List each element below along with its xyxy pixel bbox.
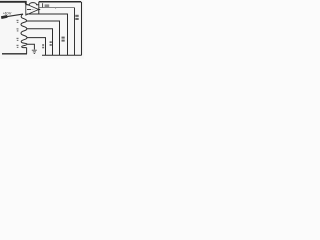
op-amp inner gray text xyxy=(32,9,35,11)
wire chain bottom drop xyxy=(26,48,28,54)
wire tap 3 to x51 vertical xyxy=(27,29,53,56)
label VREF xyxy=(42,3,44,7)
op-amp U1 xyxy=(26,4,39,15)
label left of x67 vertical xyxy=(62,37,65,42)
resistor Rf feedback arch xyxy=(26,3,39,5)
wire diagonal from +10V to ladder top xyxy=(7,14,23,17)
wire bottom rail right xyxy=(42,54,82,56)
wire output nub at apex xyxy=(38,9,40,11)
wire tap 2 to x58 vertical xyxy=(27,21,60,55)
wire bottom left output lead xyxy=(2,53,27,55)
op-amp minus input mark xyxy=(27,9,31,11)
wire rail 2 to x74 vertical xyxy=(39,7,74,9)
terminal +10V lead xyxy=(1,16,7,17)
wire tap 1 to x67 vertical xyxy=(27,14,68,55)
label left of x81 vertical xyxy=(75,15,78,20)
wire tap 4 to x44 vertical xyxy=(27,38,46,56)
resistor ladder chain vertical squiggle xyxy=(21,14,27,48)
stray scan dot xyxy=(55,8,56,9)
wire top-left summing rail xyxy=(0,2,26,4)
label left of x58 vertical xyxy=(50,41,52,46)
ladder left tick labels xyxy=(17,20,19,48)
label left of x51 vertical xyxy=(42,44,44,48)
ground symbol at tap 5 xyxy=(32,50,37,53)
scan veil xyxy=(0,0,84,59)
wire output vertical at apex xyxy=(38,2,40,14)
wire tap 5 short to x33 vertical xyxy=(27,44,34,49)
wire rail VREF top right, down right edge xyxy=(39,1,81,3)
